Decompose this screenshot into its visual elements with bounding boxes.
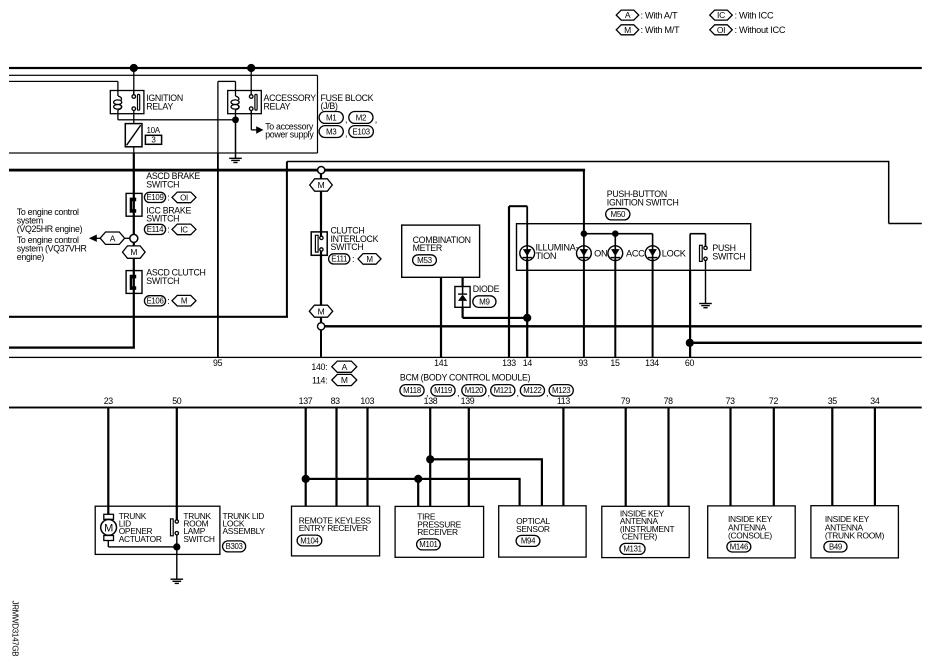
svg-text:IGNITION SWITCH: IGNITION SWITCH: [607, 198, 679, 208]
wire pin 113 to optical sensor: [562, 408, 564, 506]
svg-text:OI: OI: [717, 25, 725, 35]
svg-text:114:: 114:: [312, 376, 327, 386]
wire push switch loop from pin 60: [689, 234, 691, 271]
svg-text:,: ,: [546, 388, 548, 398]
wire meter to diode: [462, 277, 464, 286]
svg-text:SWITCH: SWITCH: [712, 252, 745, 262]
svg-text:M94: M94: [521, 537, 536, 546]
svg-text::: :: [167, 193, 169, 203]
connector M9: [473, 296, 496, 308]
tire pressure receiver box: [395, 506, 484, 557]
connector M122: [520, 385, 544, 397]
connector M1: [319, 112, 343, 124]
coil of accessory relay: [231, 96, 239, 110]
arrow to engine control system: [97, 238, 101, 239]
wire battery supply bus (top): [9, 67, 922, 69]
svg-text:M2: M2: [356, 113, 367, 122]
svg-text:M50: M50: [610, 210, 626, 219]
switch ASCD clutch switch: [126, 271, 142, 294]
meter combination meter box: [402, 225, 480, 277]
svg-text:138: 138: [424, 396, 438, 406]
connector M123: [549, 385, 573, 397]
BCM box top edge: [9, 357, 922, 358]
svg-text:IC: IC: [717, 10, 725, 20]
svg-text::: :: [167, 296, 169, 306]
inside key antenna (trunk room) box: [811, 506, 899, 558]
wire LOCK LED to BCM pin 134: [652, 259, 654, 357]
svg-text:15: 15: [610, 358, 620, 368]
hexagon IC: [172, 224, 196, 235]
svg-text:M122: M122: [523, 386, 541, 395]
svg-text:134: 134: [645, 358, 659, 368]
connector B303: [223, 541, 246, 552]
junction on pin 137 wire: [302, 475, 310, 483]
connector E109: [144, 192, 165, 202]
wire pin 35: [831, 408, 833, 506]
connector M2: [349, 112, 373, 124]
connector M104: [297, 535, 322, 546]
svg-text:LOCK: LOCK: [662, 248, 687, 258]
wire accessory coil feed to BCM pin 95: [235, 81, 236, 96]
svg-text:ENTRY RECEIVER: ENTRY RECEIVER: [299, 523, 368, 533]
junction on pin 138 wire: [426, 455, 434, 463]
inside key antenna (instrument center) box: [602, 506, 689, 557]
connector M121: [491, 385, 515, 397]
wire pin 83: [335, 408, 337, 507]
optical sensor box: [499, 506, 586, 557]
svg-text:M: M: [318, 306, 325, 316]
switch push switch: [700, 245, 703, 261]
connector M120: [462, 385, 486, 397]
svg-text:IC: IC: [180, 225, 188, 234]
svg-text:,: ,: [488, 388, 490, 398]
wire bus from connector circle to page right: [325, 325, 922, 327]
wire illumination LED cathode to pin 14: [526, 259, 528, 357]
svg-text:M123: M123: [552, 386, 570, 395]
svg-text:M53: M53: [417, 256, 433, 265]
svg-text:140:: 140:: [311, 362, 327, 372]
svg-text:power supply: power supply: [265, 130, 314, 140]
hexagon M upper: [310, 179, 333, 191]
node connector circle on bus: [318, 323, 325, 330]
svg-text:M1: M1: [326, 113, 337, 122]
svg-text:(VQ25HR engine): (VQ25HR engine): [17, 224, 83, 234]
svg-text:93: 93: [578, 358, 588, 368]
wire pin 138: [429, 408, 431, 507]
connector M53: [413, 255, 437, 266]
LED ON: [577, 246, 592, 261]
wire meter to BCM pin 141: [440, 277, 442, 357]
svg-text:M131: M131: [623, 545, 641, 554]
svg-text:TION: TION: [536, 251, 557, 261]
svg-text:M9: M9: [479, 297, 490, 306]
wire ACC LED to BCM pin 15: [614, 259, 616, 357]
svg-text:E111: E111: [331, 255, 347, 264]
connector E106: [144, 296, 165, 306]
diode M9 box: [455, 287, 470, 308]
connector B49: [824, 541, 847, 552]
svg-text:E109: E109: [146, 193, 163, 202]
svg-text:: With A/T: : With A/T: [641, 11, 679, 21]
svg-text:E106: E106: [146, 297, 163, 306]
switch trunk room lamp switch: [171, 519, 174, 536]
svg-text:(CONSOLE): (CONSOLE): [728, 531, 772, 541]
svg-text:73: 73: [726, 396, 736, 406]
svg-text:M104: M104: [300, 536, 319, 545]
legend hexagon M (With M/T): [616, 25, 639, 35]
hexagon A branch: [100, 232, 125, 244]
svg-text:ACC: ACC: [626, 248, 645, 258]
wire ignition switched bus (thick): [9, 169, 585, 172]
svg-text:M: M: [341, 375, 348, 385]
connector M3: [319, 126, 343, 138]
svg-text:METER: METER: [413, 243, 442, 253]
push-button ignition switch box M50: [517, 224, 751, 271]
connector M118: [400, 385, 424, 397]
svg-text:JRMWD3147GB: JRMWD3147GB: [11, 601, 20, 657]
svg-text:35: 35: [828, 396, 838, 406]
svg-text:BCM (BODY CONTROL MODULE): BCM (BODY CONTROL MODULE): [400, 372, 531, 382]
connector E103: [349, 126, 374, 138]
wire junction to A hexagon: [125, 238, 130, 239]
svg-text:A: A: [625, 10, 631, 20]
wire ignition relay contact feed: [133, 68, 134, 95]
svg-text:M3: M3: [326, 127, 337, 136]
svg-text:139: 139: [461, 396, 475, 406]
legend hexagon A (With A/T): [616, 10, 639, 20]
hexagon OI: [172, 192, 196, 203]
wire pin 139: [468, 408, 470, 507]
LED ACC: [608, 246, 623, 261]
svg-text::: :: [167, 225, 169, 235]
wire link 137 to tire receiver and optical sensor: [306, 478, 521, 480]
svg-text:137: 137: [299, 396, 313, 406]
wire lamp switch to ground: [176, 535, 177, 547]
svg-text:: Without ICC: : Without ICC: [735, 25, 786, 35]
connector M94: [516, 535, 540, 546]
wire bus pin60 to page right: [690, 342, 922, 344]
svg-text:23: 23: [104, 396, 114, 406]
svg-text:B303: B303: [226, 542, 243, 551]
junction coil ground rail: [232, 116, 239, 123]
wire push switch to ground: [705, 261, 706, 304]
svg-text:60: 60: [685, 358, 695, 368]
svg-text:83: 83: [331, 396, 341, 406]
svg-text:engine): engine): [17, 252, 45, 262]
wire ignition coil to ground rail: [117, 110, 118, 120]
inside key antenna (console) box: [708, 506, 796, 558]
svg-text:M: M: [318, 180, 325, 190]
svg-text:DIODE: DIODE: [473, 284, 500, 294]
junction diode / illumination LED: [523, 314, 531, 322]
svg-text:,: ,: [345, 115, 347, 125]
svg-text:10A: 10A: [147, 126, 161, 135]
svg-text:M: M: [130, 247, 137, 257]
svg-text:M146: M146: [730, 543, 748, 552]
svg-text:RECEIVER: RECEIVER: [417, 527, 458, 537]
LED illumination: [520, 246, 535, 261]
svg-text:(TRUNK ROOM): (TRUNK ROOM): [825, 531, 885, 541]
svg-text:M118: M118: [403, 386, 421, 395]
wire pin 79: [625, 408, 627, 507]
svg-text:CENTER): CENTER): [622, 531, 658, 541]
svg-text:ACTUATOR: ACTUATOR: [119, 534, 162, 544]
svg-text:,: ,: [375, 115, 377, 125]
wire ASCD branch vertical: [133, 147, 134, 153]
relay ignition relay box: [110, 91, 144, 114]
hexagon M: [172, 295, 196, 306]
junction ignition relay feed: [130, 64, 138, 72]
wire clutch interlock branch: [320, 174, 322, 179]
svg-text:SWITCH: SWITCH: [331, 242, 364, 252]
svg-text:M121: M121: [494, 386, 512, 395]
svg-text:ON: ON: [594, 248, 607, 258]
connector M50: [606, 209, 630, 220]
switch ASCD brake switch: [126, 193, 142, 216]
wire routing line to page right: [287, 161, 890, 163]
trunk lid lock assembly box: [95, 506, 220, 554]
wire right edge drop: [888, 162, 890, 224]
svg-text:M: M: [366, 255, 373, 264]
svg-text:SENSOR: SENSOR: [516, 524, 550, 534]
wire link 138 to optical sensor: [430, 458, 543, 460]
wire to bus connector circle: [320, 317, 322, 323]
wire to interlock switch: [320, 191, 322, 236]
connector M146: [727, 541, 751, 552]
wire motor to ground rail: [108, 541, 109, 547]
svg-text:: With ICC: : With ICC: [735, 11, 775, 21]
wire ignition relay coil feed: [9, 81, 118, 82]
wire pin 23 to trunk actuator: [107, 408, 109, 515]
legend hexagon OI (Without ICC): [710, 25, 733, 35]
wire pin 50 to trunk room lamp switch: [176, 408, 178, 520]
svg-text:M119: M119: [434, 386, 452, 395]
wire BCM pin 60 vertical: [689, 270, 691, 357]
svg-text:,: ,: [457, 388, 459, 398]
connector M119: [431, 385, 455, 397]
svg-text:RELAY: RELAY: [146, 101, 173, 111]
connector M131: [620, 543, 645, 554]
junction tire receiver stub: [414, 475, 422, 483]
svg-text:79: 79: [621, 396, 631, 406]
contact of ignition relay: [133, 91, 134, 95]
label fuse number 3 box: [145, 135, 161, 144]
relay accessory relay box: [228, 91, 262, 114]
wire branch down-left to page exit: [286, 162, 288, 317]
fuse 10A No.3: [133, 114, 134, 124]
svg-text:SWITCH: SWITCH: [146, 276, 179, 286]
svg-text:72: 72: [769, 396, 779, 406]
wire accessory relay contact feed: [251, 68, 252, 91]
svg-text:A: A: [342, 362, 348, 372]
arrow to accessory power supply: [256, 126, 263, 134]
legend hexagon IC (With ICC): [710, 10, 733, 20]
remote keyless entry receiver box: [292, 506, 380, 556]
wire pin 34: [874, 408, 876, 506]
fuse block J/B outline box: [9, 75, 318, 76]
svg-text:141: 141: [434, 358, 448, 368]
svg-text:103: 103: [360, 396, 374, 406]
svg-text:M: M: [181, 297, 188, 306]
svg-text:113: 113: [557, 396, 571, 406]
node junction to engine control: [130, 234, 138, 242]
wire rail stubs to LEDs: [583, 234, 585, 248]
connector E111: [329, 254, 350, 264]
wire ON LED to BCM pin 93: [583, 259, 585, 357]
hexagon M on ASCD wire: [123, 246, 146, 258]
svg-text:RELAY: RELAY: [264, 101, 291, 111]
svg-text:50: 50: [172, 396, 182, 406]
wire clutch switch to page exit: [9, 346, 135, 348]
motor trunk lid opener actuator: [104, 514, 114, 519]
svg-text:14: 14: [523, 358, 533, 368]
wire pin 78: [667, 408, 669, 507]
node connector circle on ignition bus: [318, 167, 325, 174]
svg-text:M: M: [624, 25, 631, 35]
svg-text:SWITCH: SWITCH: [146, 214, 179, 224]
wire pin 103: [366, 408, 368, 507]
svg-text:E103: E103: [352, 127, 370, 136]
svg-text:133: 133: [502, 358, 516, 368]
hexagon M: [358, 254, 381, 265]
svg-text:(J/B): (J/B): [321, 101, 338, 111]
BCM box bottom edge: [9, 407, 922, 409]
wire BCM pin 140/114 vertical: [320, 330, 322, 357]
wire LED feed into box: [583, 170, 585, 234]
wire BCM pin 133 to illumination loop: [508, 206, 510, 357]
svg-text:A: A: [110, 233, 116, 243]
ground accessory relay coil: [235, 110, 236, 158]
wire diode to junction: [462, 307, 464, 318]
svg-text:M: M: [104, 522, 113, 534]
junction ground rail: [173, 543, 180, 550]
junction ON LED: [581, 230, 588, 237]
junction ACC LED: [612, 230, 619, 237]
junction accessory relay feed: [247, 64, 255, 72]
svg-text:B49: B49: [829, 543, 842, 552]
connector M101: [417, 539, 441, 550]
svg-text:OI: OI: [180, 193, 188, 202]
wire pin 72: [773, 408, 775, 506]
wire BCM pin 95 vertical: [217, 153, 219, 357]
wire pin 137 to keyless receiver: [305, 408, 307, 507]
ground trunk lid lock assembly: [176, 547, 177, 579]
contact of accessory relay: [251, 91, 252, 95]
hexagon M lower: [309, 305, 332, 317]
svg-text::: :: [352, 254, 354, 264]
svg-text:M101: M101: [419, 540, 437, 549]
LED LOCK: [645, 246, 660, 261]
svg-text:95: 95: [213, 358, 223, 368]
junction pin 60 on bus: [686, 339, 694, 347]
svg-text:78: 78: [664, 396, 674, 406]
svg-text:SWITCH: SWITCH: [146, 179, 179, 189]
wire LED anode rail: [584, 233, 653, 235]
svg-text:E114: E114: [147, 225, 164, 234]
diode symbol: [462, 287, 464, 295]
svg-text:: With M/T: : With M/T: [641, 25, 681, 35]
svg-text:,: ,: [517, 388, 519, 398]
svg-text:SWITCH: SWITCH: [183, 534, 214, 544]
svg-text:ASSEMBLY: ASSEMBLY: [223, 526, 266, 536]
connector E114: [144, 224, 165, 234]
svg-text:34: 34: [870, 396, 880, 406]
svg-text:M120: M120: [465, 386, 484, 395]
wire pin 73: [729, 408, 731, 506]
svg-text:,: ,: [345, 129, 347, 139]
coil of ignition relay: [114, 96, 122, 110]
switch clutch interlock switch: [311, 232, 327, 255]
wire interlock switch down: [320, 251, 322, 305]
wire accessory relay output: [251, 111, 252, 130]
